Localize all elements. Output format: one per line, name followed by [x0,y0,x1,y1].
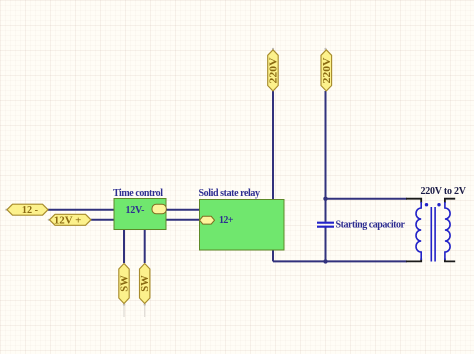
svg-text:220V to 2V: 220V to 2V [421,186,467,197]
svg-text:SW: SW [140,275,151,292]
svg-text:12V +: 12V + [54,215,82,226]
svg-text:12+: 12+ [219,215,234,226]
svg-text:12 -: 12 - [22,205,38,216]
svg-text:Solid state relay: Solid state relay [199,188,261,199]
svg-text:220V: 220V [269,57,280,84]
svg-text:12V-: 12V- [126,205,145,216]
svg-text:Starting capacitor: Starting capacitor [336,220,406,231]
svg-text:Time control: Time control [113,188,163,199]
svg-text:SW: SW [120,275,131,292]
svg-text:220V: 220V [322,57,333,84]
